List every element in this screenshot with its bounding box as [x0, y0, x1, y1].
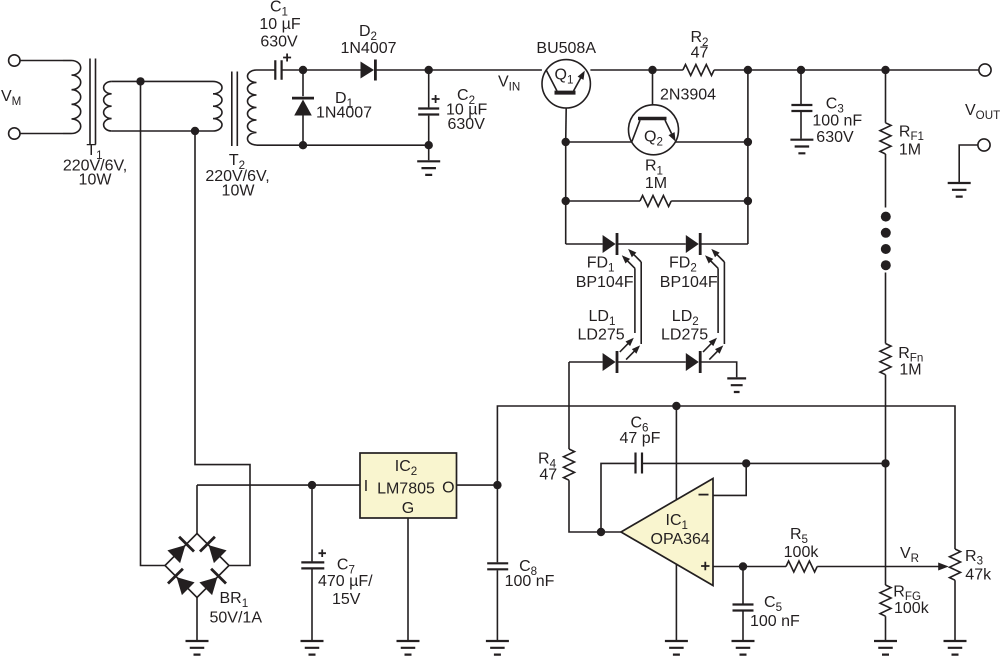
wire inverting input: [713, 463, 746, 495]
capacitor C8: [487, 485, 508, 640]
svg-text:BU508A: BU508A: [536, 40, 596, 57]
wire tap B down to bridge: [195, 131, 250, 566]
output return terminal: [959, 139, 990, 182]
wire output column: [747, 70, 749, 244]
wire output node up to C6: [601, 463, 636, 532]
wire bridge to IC2 input: [197, 484, 360, 486]
svg-text:2N3904: 2N3904: [660, 87, 716, 104]
transformer T1 core: [90, 59, 96, 145]
wire C1 to node VIN-rail: [282, 69, 303, 71]
capacitor C3: [791, 70, 812, 139]
led LD2 LD275: [686, 351, 700, 373]
svg-text:10W: 10W: [79, 172, 113, 189]
label Q2: [644, 129, 663, 149]
ground C5: [732, 641, 755, 655]
node op-amp V+ tap: [672, 402, 680, 410]
wire D2 to C2 node: [376, 69, 429, 71]
svg-text:100k: 100k: [784, 544, 820, 561]
label VR: [900, 545, 919, 565]
transformer T2 secondary winding: [248, 70, 304, 145]
wire tap A down to bridge: [141, 81, 166, 565]
label FD2: [669, 255, 697, 275]
wire IC2 ground pin: [407, 518, 409, 640]
svg-text:1N4007: 1N4007: [340, 40, 396, 57]
resistor RF1 1M: [880, 70, 891, 208]
label IC2: [395, 458, 417, 478]
wire base link left: [566, 141, 632, 143]
label RFG 100k: [894, 600, 930, 617]
transistor Q2 2N3904: [629, 70, 679, 155]
node RF1 top: [881, 66, 889, 74]
svg-text:47 pF: 47 pF: [620, 430, 661, 447]
svg-text:G: G: [402, 500, 414, 517]
bridge diode bottom-right: [199, 569, 226, 595]
label C1 630V: [260, 34, 298, 51]
wire 5V rail: [497, 406, 955, 549]
ground RFG: [874, 641, 897, 655]
label C2 630V: [448, 116, 486, 133]
svg-text:47: 47: [691, 45, 709, 62]
wire LD1 to LD2: [617, 361, 686, 363]
label RF1 1M: [899, 142, 921, 159]
label T2 10W: [222, 183, 256, 200]
label D1 1N4007: [316, 105, 372, 122]
transformer T2 primary winding: [213, 81, 222, 131]
svg-text:1M: 1M: [645, 175, 667, 192]
label T1 220V/6V,: [63, 158, 127, 175]
label RFn 1M: [899, 362, 921, 379]
capacitor C2: [418, 70, 439, 145]
wire bridge + output: [196, 485, 198, 533]
label C1 10uF: [259, 16, 300, 33]
wire Q1 emitter to base node: [590, 69, 652, 71]
node tap A: [136, 77, 144, 85]
photodiode FD1 BP104F: [603, 233, 617, 255]
label C3 100nF: [812, 113, 862, 130]
svg-text:1N4007: 1N4007: [316, 105, 372, 122]
label R2: [690, 29, 708, 49]
svg-text:630V: 630V: [816, 129, 854, 146]
node Q2 emitter right: [744, 138, 752, 146]
svg-text:50V/1A: 50V/1A: [210, 610, 263, 627]
label LD1 LD275: [578, 327, 625, 344]
label R5 100k: [784, 544, 820, 561]
svg-text:630V: 630V: [448, 116, 486, 133]
node C7 top: [308, 481, 316, 489]
label OPA364: [651, 531, 710, 548]
wire LD2 right: [700, 362, 736, 377]
node Q2 base: [648, 66, 656, 74]
node C2 top: [425, 66, 433, 74]
wire op-amp V+ supply: [675, 406, 677, 499]
wire op-amp V- supply: [675, 564, 677, 641]
ground LED string: [727, 378, 746, 392]
label R5: [790, 526, 808, 546]
label C2 10uF: [446, 102, 487, 119]
svg-text:15V: 15V: [332, 591, 361, 608]
wire node to D2: [303, 69, 361, 71]
label C5 100nF: [750, 613, 800, 630]
label BR1 50V/1A: [210, 610, 263, 627]
ground C2: [417, 145, 440, 175]
resistor RFG 100k: [880, 463, 891, 640]
label RFn: [898, 345, 923, 365]
label BR1: [220, 590, 249, 610]
svg-text:100 nF: 100 nF: [505, 573, 555, 590]
wire FD row left: [566, 243, 603, 245]
wire C6 to inverting node: [642, 462, 746, 464]
wire LD row left: [569, 361, 603, 363]
svg-text:47k: 47k: [965, 567, 992, 584]
wire T1 secondary to T2 primary top: [141, 80, 214, 82]
node op-amp output: [597, 528, 605, 536]
label IC2 pin O: [442, 480, 454, 497]
wire op-amp output: [601, 531, 621, 533]
op-amp plus symbol: [701, 562, 709, 570]
input terminal VM bottom: [9, 128, 63, 139]
node noninverting input: [739, 562, 747, 570]
label C7 470uF: [318, 573, 373, 590]
capacitor C5: [733, 567, 754, 641]
bridge diode top-left: [167, 537, 194, 563]
node D1 top: [299, 66, 307, 74]
label RFG: [893, 583, 921, 603]
label R2 47: [691, 45, 709, 62]
wire C3 node to RF1 node: [801, 69, 886, 71]
transistor Q1 BU508A: [542, 60, 590, 142]
label FD1 BP104F: [576, 274, 634, 291]
label C3: [826, 96, 844, 116]
ground output return: [948, 183, 971, 197]
label D2: [359, 23, 377, 43]
node R1 right: [744, 197, 752, 205]
wire bridge - to ground: [196, 598, 198, 641]
ground C8: [486, 641, 509, 655]
wire bottom rail to C2: [303, 144, 429, 146]
op-amp IC1 OPA364: [621, 479, 713, 586]
bridge rectifier BR1 frame: [165, 534, 229, 598]
bridge diode top-right: [200, 537, 227, 563]
wiper arrow into R3: [938, 563, 949, 571]
node C3 top: [797, 66, 805, 74]
wire IC2 output: [457, 484, 498, 486]
capacitor C1: [275, 54, 291, 80]
resistor R1 1M: [566, 196, 748, 207]
label BU508A: [536, 40, 596, 57]
node R2 right: [744, 66, 752, 74]
label VM: [1, 88, 21, 108]
ground IC2: [397, 641, 420, 655]
label C5: [764, 594, 782, 614]
label LD1: [589, 308, 616, 328]
ellipsis dots chain: [881, 212, 891, 271]
op-amp minus symbol: [699, 494, 709, 496]
wire R2 to C3 node: [748, 69, 801, 71]
label R4 47: [539, 466, 557, 483]
diode D1 1N4007: [292, 70, 314, 145]
svg-text:1M: 1M: [899, 142, 921, 159]
svg-text:47: 47: [539, 466, 557, 483]
label C7: [337, 557, 355, 577]
svg-text:LM7805: LM7805: [377, 481, 435, 498]
svg-text:O: O: [442, 480, 454, 497]
node inverting input: [742, 459, 750, 467]
optical coupling arrows LD2 to FD2: [703, 249, 724, 360]
label T1: [86, 142, 102, 162]
svg-text:BP104F: BP104F: [660, 274, 718, 291]
svg-text:LD275: LD275: [661, 327, 708, 344]
label R3: [965, 548, 983, 568]
label C2: [457, 87, 475, 107]
svg-text:100 nF: 100 nF: [812, 113, 862, 130]
label R4: [538, 451, 557, 471]
resistor R4 47: [564, 362, 602, 532]
label FD1: [587, 255, 615, 275]
transformer T1 primary winding: [63, 61, 81, 134]
svg-text:BP104F: BP104F: [576, 274, 634, 291]
svg-text:LD275: LD275: [578, 327, 625, 344]
diode D2 1N4007: [361, 60, 376, 81]
output terminal VOUT: [979, 64, 991, 76]
input terminal VM top: [9, 55, 63, 66]
capacitor C6 47pF: [636, 453, 643, 474]
resistor R5 100k: [743, 561, 939, 572]
svg-text:470 µF/: 470 µF/: [318, 573, 373, 590]
wire FD2 right: [700, 243, 748, 245]
label T2 220V/6V,: [205, 168, 269, 185]
node D1 bottom: [299, 141, 307, 149]
bridge diode bottom-left: [168, 569, 195, 595]
wire C2 node to Q1: [429, 69, 542, 71]
resistor R2 47: [653, 65, 748, 76]
svg-text:10W: 10W: [222, 183, 256, 200]
label VIN: [498, 74, 520, 94]
ground op-amp: [665, 641, 688, 655]
label D1: [335, 90, 353, 110]
label C6: [630, 415, 648, 435]
node C2 bottom: [425, 141, 433, 149]
capacitor C7: [301, 485, 326, 640]
svg-text:100k: 100k: [894, 600, 930, 617]
label 2N3904: [660, 87, 716, 104]
ground C3: [790, 140, 813, 154]
label FD2 BP104F: [660, 274, 718, 291]
transformer T2 core: [232, 72, 238, 147]
label LD2 LD275: [661, 327, 708, 344]
label T2: [229, 152, 245, 172]
svg-text:OPA364: OPA364: [651, 531, 710, 548]
label RF1: [899, 123, 924, 143]
resistor RFn 1M: [880, 273, 891, 464]
svg-text:I: I: [364, 478, 368, 495]
transformer T1 secondary winding: [104, 81, 141, 131]
wire feedback link: [746, 462, 885, 464]
label R3 47k: [965, 567, 992, 584]
node IC2 output: [493, 481, 501, 489]
label C6 47pF: [620, 430, 661, 447]
label C3 630V: [816, 129, 854, 146]
node Q1 base / wire down: [562, 138, 570, 244]
wire base link right: [675, 141, 748, 143]
ground R3: [944, 641, 967, 655]
wire noninverting input: [713, 566, 743, 568]
label D2 1N4007: [340, 40, 396, 57]
label T1 10W: [79, 172, 113, 189]
label Q1: [555, 67, 574, 87]
wire RF1 node to VOUT: [886, 69, 979, 71]
label C8: [519, 558, 537, 578]
label C8 100nF: [505, 573, 555, 590]
node feedback column: [881, 459, 889, 467]
svg-text:100 nF: 100 nF: [750, 613, 800, 630]
svg-text:1M: 1M: [899, 362, 921, 379]
regulator IC2 LM7805: [360, 453, 457, 518]
label IC2 pin I: [364, 478, 368, 495]
node R1 left: [562, 197, 570, 205]
label VOUT: [965, 102, 1000, 122]
ground C7: [301, 641, 324, 655]
label R1 1M: [645, 175, 667, 192]
svg-text:10 µF: 10 µF: [259, 16, 300, 33]
label IC2 pin G: [402, 500, 414, 517]
label LD2: [672, 308, 699, 328]
photodiode FD2 BP104F: [686, 233, 700, 255]
node tap B: [191, 127, 199, 135]
wire T1 secondary to T2 primary bottom: [141, 130, 214, 132]
led LD1 LD275: [603, 351, 617, 373]
label C7 15V: [332, 591, 361, 608]
label IC1: [666, 512, 688, 532]
wire FD1 to FD2: [617, 243, 686, 245]
potentiometer R3 47k: [950, 549, 961, 640]
label R1: [645, 158, 663, 178]
label LM7805: [377, 481, 435, 498]
label C1: [270, 0, 288, 18]
ground BR1: [186, 641, 209, 655]
svg-text:630V: 630V: [260, 34, 298, 51]
optical coupling arrows LD1 to FD1: [620, 249, 641, 360]
